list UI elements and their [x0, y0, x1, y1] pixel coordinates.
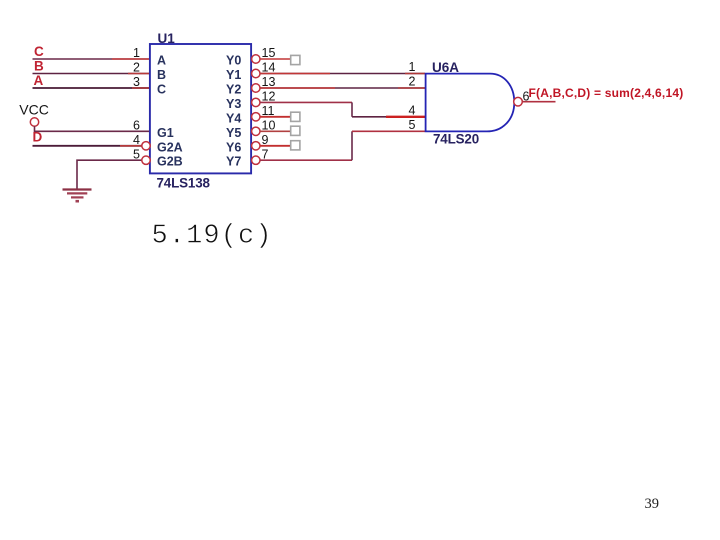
svg-text:Y4: Y4 — [226, 111, 241, 125]
svg-text:5.19(c): 5.19(c) — [152, 221, 273, 251]
wire net C to U1 pin1 — [33, 58, 152, 60]
IC U1 body — [150, 44, 251, 173]
svg-text:74LS20: 74LS20 — [433, 132, 479, 147]
wire Y7 vertical to pin5 row — [351, 131, 353, 160]
wire Y3 horizontal — [260, 101, 352, 103]
svg-text:15: 15 — [262, 46, 276, 60]
svg-text:G1: G1 — [157, 126, 174, 140]
svg-text:G2B: G2B — [157, 155, 183, 169]
svg-text:5: 5 — [133, 147, 140, 161]
terminal square Y4 — [291, 112, 300, 121]
svg-text:Y5: Y5 — [226, 126, 241, 140]
bubble U1 Y2 — [252, 84, 260, 92]
bubble U6A output — [514, 97, 523, 106]
wire net B to U1 pin2 — [33, 73, 152, 75]
bubble U1 Y1 — [252, 69, 260, 77]
wire net D to U1 pin4 G2A — [33, 145, 142, 147]
wire ground to U1 pin5 G2B — [77, 160, 142, 189]
svg-text:74LS138: 74LS138 — [157, 175, 211, 190]
wire Y6 stub — [260, 145, 291, 147]
wire to U6A pin4 — [352, 116, 388, 118]
svg-text:Y0: Y0 — [226, 54, 241, 68]
svg-text:B: B — [157, 68, 166, 82]
svg-text:F(A,B,C,D) = sum(2,4,6,14): F(A,B,C,D) = sum(2,4,6,14) — [529, 86, 684, 100]
bubble U1 G2A — [142, 142, 150, 150]
svg-text:9: 9 — [262, 133, 269, 147]
bubble U1 Y4 — [252, 113, 260, 121]
svg-text:1: 1 — [409, 60, 416, 74]
svg-text:4: 4 — [409, 104, 416, 118]
bubble U1 Y5 — [252, 127, 260, 135]
bubble U1 Y3 — [252, 98, 260, 106]
wire Y0 stub — [260, 58, 291, 60]
svg-text:VCC: VCC — [19, 101, 49, 117]
svg-text:G2A: G2A — [157, 140, 183, 154]
svg-text:4: 4 — [133, 133, 140, 147]
terminal square Y6 — [291, 141, 300, 150]
svg-text:B: B — [34, 59, 44, 74]
svg-text:14: 14 — [262, 61, 276, 75]
svg-text:Y3: Y3 — [226, 97, 241, 111]
svg-text:1: 1 — [133, 46, 140, 60]
wire Y1 to U6A pin1 — [260, 73, 425, 75]
svg-text:13: 13 — [262, 75, 276, 89]
terminal square Y5 — [291, 126, 300, 135]
svg-text:6: 6 — [133, 119, 140, 133]
wire VCC to U1 pin6 G1 — [35, 126, 152, 131]
wire Y3 vertical to pin4 row — [351, 102, 353, 116]
NAND gate U6A body — [426, 74, 515, 132]
svg-text:Y6: Y6 — [226, 140, 241, 154]
bubble U1 Y7 — [252, 156, 260, 164]
svg-text:C: C — [157, 83, 166, 97]
svg-text:C: C — [34, 44, 44, 59]
svg-text:U1: U1 — [158, 31, 176, 46]
terminal square Y0 — [291, 55, 300, 64]
svg-text:3: 3 — [133, 75, 140, 89]
svg-text:A: A — [34, 73, 44, 88]
svg-text:2: 2 — [133, 61, 140, 75]
svg-text:39: 39 — [645, 496, 660, 512]
bubble U1 G2B — [142, 156, 150, 164]
svg-text:D: D — [33, 130, 43, 145]
wire net A to U1 pin3 — [33, 87, 152, 89]
wire to U6A pin5 — [352, 130, 425, 132]
wire U6A output — [522, 101, 555, 103]
wire Y2 to U6A pin2 — [260, 87, 425, 89]
svg-text:10: 10 — [262, 119, 276, 133]
svg-text:Y7: Y7 — [226, 155, 241, 169]
svg-text:U6A: U6A — [432, 60, 459, 75]
wire Y4 stub — [260, 116, 291, 118]
svg-text:Y2: Y2 — [226, 83, 241, 97]
bubble U1 Y6 — [252, 142, 260, 150]
svg-text:Y1: Y1 — [226, 68, 241, 82]
svg-text:7: 7 — [262, 147, 269, 161]
wire Y7 horizontal — [260, 159, 352, 161]
ground — [63, 190, 92, 202]
wire Y5 stub — [260, 130, 291, 132]
bubble U1 Y0 — [252, 55, 260, 63]
svg-text:2: 2 — [409, 75, 416, 89]
svg-text:A: A — [157, 54, 166, 68]
svg-text:5: 5 — [409, 118, 416, 132]
